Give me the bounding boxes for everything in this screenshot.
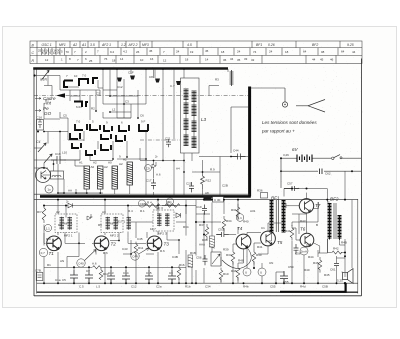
svg-text:C3: C3 (169, 271, 173, 275)
capacitor C21 (166, 139, 171, 147)
svg-text:36: 36 (223, 58, 227, 62)
capacitor C16 plates (38, 119, 42, 128)
svg-text:A3: A3 (102, 210, 106, 214)
transistor T6 symbol (305, 235, 311, 246)
shield thick bottom line (40, 195, 251, 198)
svg-text:C1F: C1F (128, 71, 134, 75)
svg-text:R46: R46 (231, 269, 237, 273)
svg-text:L3: L3 (201, 117, 207, 122)
svg-text:OSC 1: OSC 1 (42, 43, 52, 47)
circled tag mixer (145, 165, 152, 172)
svg-text:MF2 2: MF2 2 (110, 222, 119, 226)
scattered AF labels (223, 209, 347, 277)
svg-text:AN: AN (60, 259, 64, 263)
svg-text:R40: R40 (304, 268, 310, 272)
gang drive arrowhead (56, 93, 65, 97)
capacitor C14 electrolytic (122, 270, 130, 283)
resistor R13 vertical (99, 268, 103, 280)
svg-text:R1: R1 (45, 99, 49, 103)
junction dots bottom (73, 266, 173, 284)
circled tag near T3 with arrow (131, 252, 139, 260)
wire: misc bottom verticals (74, 222, 221, 283)
IF coil L3 box (181, 78, 200, 153)
labels MF2 2 (102, 210, 119, 237)
svg-text:6.0n: 6.0n (76, 105, 82, 109)
svg-text:MF2 3: MF2 3 (158, 232, 167, 236)
svg-text:par rapport au +: par rapport au + (261, 129, 295, 134)
wire: switch to frame (342, 157, 361, 159)
svg-text:R1: R1 (47, 263, 51, 267)
svg-text:L.5: L.5 (96, 285, 101, 289)
mixer coil hatched box B (98, 166, 104, 189)
svg-text:C62: C62 (325, 172, 331, 176)
svg-text:46: 46 (330, 58, 334, 62)
volume potentiometer box (211, 252, 221, 266)
arrow to Pe GO (35, 110, 41, 112)
arrow to Cadre (35, 97, 41, 99)
resistor R12 zigzag (201, 172, 205, 188)
transistor T2 symbol (95, 238, 107, 250)
svg-text:R.1: R.1 (140, 209, 145, 213)
svg-text:R9: R9 (98, 223, 102, 227)
capacitor C7B box bottom-left (36, 273, 43, 281)
IF transformer MF3 dashed box (153, 210, 174, 231)
circled tag under T6 (300, 247, 308, 255)
svg-text:BF2: BF2 (330, 196, 339, 201)
oscillator transistor symbol (41, 171, 46, 180)
svg-text:R41: R41 (257, 245, 263, 249)
svg-text:C12: C12 (131, 285, 137, 289)
svg-text:1.2: 1.2 (121, 43, 126, 47)
wire: tuner left mesh extras (34, 118, 140, 193)
circled tag near T2 with AGC arrow (77, 259, 85, 267)
svg-text:10: 10 (140, 58, 144, 62)
svg-text:MF2 1: MF2 1 (64, 233, 73, 237)
svg-text:R4B: R4B (341, 241, 347, 245)
voltage table header texts row B (42, 43, 354, 47)
svg-text:45: 45 (320, 58, 324, 62)
resistor R45 vertical (318, 257, 322, 273)
labels MF3 (156, 206, 167, 236)
svg-text:9 F: 9 F (141, 120, 146, 124)
extra junction dots tuner (59, 95, 147, 160)
svg-text:C4B: C4B (172, 255, 178, 259)
svg-text:C40: C40 (78, 262, 84, 266)
svg-text:A1: A1 (79, 161, 83, 165)
coil L1 thick marks (64, 81, 73, 88)
svg-text:R4b: R4b (243, 285, 249, 289)
svg-text:C7: C7 (86, 269, 90, 273)
mixer coil hatched box C (112, 166, 118, 189)
svg-text:R2: R2 (91, 107, 95, 111)
circled tag U2 (243, 268, 251, 276)
scattered IF labels (46, 209, 205, 267)
svg-text:A4: A4 (176, 167, 180, 171)
svg-text:R31: R31 (231, 208, 237, 212)
svg-text:T2: T2 (111, 242, 117, 247)
wire: L3 to shield bar (184, 153, 248, 196)
svg-text:0.26: 0.26 (268, 43, 275, 47)
capacitor C8 feedthrough (155, 79, 160, 83)
svg-text:C19: C19 (55, 152, 61, 156)
svg-text:MF2 2: MF2 2 (110, 233, 119, 237)
junction dots IF (43, 199, 197, 285)
svg-text:64: 64 (303, 49, 307, 53)
oscillator coil box (51, 171, 64, 179)
circled tag near T1 (39, 248, 47, 256)
resistor R31 vertical (236, 204, 240, 220)
svg-text:25: 25 (89, 59, 93, 63)
trimmer capacitor C1 arrow (42, 70, 50, 80)
svg-text:A2: A2 (123, 158, 127, 162)
scattered tuner labels (45, 92, 228, 195)
svg-text:R10: R10 (223, 272, 229, 276)
svg-text:C17: C17 (146, 179, 152, 183)
svg-text:UN: UN (269, 261, 273, 265)
svg-text:C44: C44 (233, 149, 239, 153)
transistor T4 symbol (242, 236, 248, 248)
svg-text:34: 34 (230, 57, 234, 61)
svg-text:R1b: R1b (185, 285, 191, 289)
wire: IF stage verticals (44, 200, 196, 284)
switch S1 (332, 157, 334, 159)
diode D3 (87, 214, 91, 220)
schematic frame bottom double line (34, 295, 361, 297)
svg-text:26: 26 (136, 50, 140, 54)
extra winding box right of MF2-2 (127, 217, 132, 230)
resistor R6 zigzag on emitter row (93, 266, 102, 269)
loudspeaker (343, 269, 353, 284)
BF1 right winding (282, 200, 286, 233)
svg-text:R.4: R.4 (128, 209, 133, 213)
IF transformer MF2-1 dashed box (55, 214, 77, 233)
wire: coil interconnects (68, 80, 103, 88)
wire: T6 T7 local mesh (292, 202, 320, 253)
junction dot C16 (37, 131, 39, 133)
svg-text:10: 10 (74, 74, 78, 78)
labels A0 A2 (91, 162, 124, 169)
svg-text:AF2 2: AF2 2 (128, 43, 138, 47)
voltage table label column divider (36, 41, 38, 64)
junction dots IF extra (78, 205, 193, 285)
BF2 core lines (334, 203, 336, 239)
svg-text:08: 08 (321, 50, 325, 54)
capacitor C58 (294, 244, 299, 254)
svg-text:GO: GO (44, 111, 52, 116)
capacitor C19b (202, 205, 207, 215)
svg-text:C57: C57 (287, 181, 293, 185)
earphone jack circle (282, 102, 287, 107)
resistor R4 zigzag (145, 204, 160, 208)
scan grain texture (30, 40, 363, 297)
svg-text:1o: 1o (47, 188, 51, 192)
resistor R16 vertical (177, 266, 181, 280)
svg-text:C59: C59 (288, 265, 294, 269)
svg-text:19: 19 (190, 50, 194, 54)
transistor T7 symbol (305, 200, 311, 212)
svg-text:44: 44 (312, 58, 316, 62)
svg-text:C6: C6 (140, 114, 144, 118)
scattered bottom labels (47, 223, 328, 289)
wire: extra tuner horizontals (60, 96, 113, 161)
transistor T1 circle (47, 236, 62, 251)
svg-text:C61: C61 (330, 267, 336, 271)
wire: T7 collector loop (284, 189, 327, 209)
capacitor C3 electrolytic (168, 270, 176, 283)
svg-text:R12: R12 (206, 179, 212, 183)
svg-text:35: 35 (237, 58, 241, 62)
capacitor C17 (151, 179, 156, 189)
resistor R33 vertical (231, 249, 235, 265)
svg-text:C5: C5 (63, 114, 67, 118)
svg-text:C21: C21 (165, 137, 171, 141)
IF coil L3 right winding (192, 91, 197, 148)
shield thick vertical bar (248, 87, 251, 197)
wire: lower tuner mesh (117, 79, 220, 197)
driver transformer BF1 (270, 200, 286, 233)
svg-text:32: 32 (251, 58, 255, 62)
IF coil L3 left winding (184, 89, 189, 146)
svg-text:18: 18 (285, 50, 289, 54)
BF2 right winding (338, 215, 342, 240)
resistor R36 white box at shield corner (261, 193, 268, 199)
svg-text:R41: R41 (285, 229, 291, 233)
transistor T2 circle (94, 236, 109, 251)
capacitor C13 electrolytic (107, 270, 115, 283)
coil R3 on top rail (230, 70, 234, 86)
svg-text:R.9: R.9 (210, 168, 215, 172)
svg-text:7.0: 7.0 (76, 120, 81, 124)
svg-text:A31: A31 (250, 209, 256, 213)
ground bus line (37, 282, 358, 284)
svg-text:A0: A0 (108, 161, 112, 165)
svg-text:1,1: 1,1 (238, 216, 243, 220)
svg-text:A8: A8 (205, 191, 209, 195)
svg-text:C1a: C1a (55, 278, 61, 282)
svg-text:64: 64 (341, 49, 345, 53)
capacitor C1F feedthrough (130, 76, 135, 80)
wire: top-left antenna input (34, 75, 60, 77)
junction dots on top rail (102, 68, 185, 70)
svg-text:C8: C8 (149, 75, 153, 79)
MF3 windings (157, 213, 170, 226)
svg-text:C56: C56 (196, 255, 202, 259)
voltage table row labels (32, 43, 35, 63)
svg-text:C1: C1 (261, 226, 265, 230)
svg-text:3.5: 3.5 (90, 43, 95, 47)
svg-text:R 4: R 4 (147, 200, 152, 204)
capacitor C12 feedthrough (117, 78, 122, 82)
resistor R38 hatched box (210, 236, 215, 248)
MF2-2 windings (106, 217, 119, 230)
svg-text:C4: C4 (36, 140, 40, 144)
resistor R10 vertical (219, 268, 223, 282)
capacitor C53 (217, 232, 229, 237)
resistor R40 vertical (252, 249, 256, 265)
circled tag W (45, 185, 53, 193)
svg-text:12: 12 (45, 58, 49, 62)
MF2-1 windings (60, 217, 73, 230)
dash-dot link to L3 (140, 139, 180, 141)
svg-text:R44: R44 (308, 255, 314, 259)
svg-text:76: 76 (104, 57, 108, 61)
jack plug chevron (296, 100, 325, 113)
wire: supply taps from top rail (103, 69, 228, 104)
wire: mesh of tuner couplings (60, 76, 146, 121)
svg-text:L2: L2 (112, 108, 116, 112)
wire: battery left (281, 157, 297, 159)
svg-text:C2: C2 (96, 92, 100, 96)
svg-text:C.5: C.5 (79, 285, 84, 289)
svg-text:MF 3: MF 3 (156, 206, 163, 210)
schematic frame left double line (33, 68, 35, 297)
svg-text:C9: C9 (146, 166, 150, 170)
diode D2 (176, 213, 181, 218)
mixer coil hatched box D (127, 162, 133, 185)
battery B1 (297, 155, 312, 163)
svg-text:BF1: BF1 (256, 43, 262, 47)
svg-text:BF2: BF2 (312, 43, 318, 47)
coil L2 thick marks (79, 78, 98, 86)
transistor T3 symbol (148, 238, 160, 250)
svg-text:24: 24 (176, 49, 180, 53)
svg-text:MF2 1: MF2 1 (64, 222, 73, 226)
svg-text:2mA: 2mA (301, 249, 307, 253)
svg-text:R40: R40 (243, 220, 249, 224)
svg-text:R33: R33 (226, 253, 232, 257)
circled tag top mid 2 (166, 198, 173, 205)
svg-text:C43: C43 (122, 247, 128, 251)
svg-text:44: 44 (352, 50, 356, 54)
wire: AF mesh (196, 158, 352, 284)
svg-text:2r: 2r (66, 200, 69, 204)
label Pe GO (43, 106, 52, 116)
svg-text:C5B: C5B (322, 285, 328, 289)
oscillator coil bumps (52, 176, 61, 178)
svg-text:S: S (168, 200, 170, 204)
schematic frame right double line (360, 59, 362, 297)
capacitor C7 electrolytic (85, 270, 93, 283)
capacitor C20 (189, 182, 194, 192)
svg-text:24: 24 (269, 49, 273, 53)
diode D0 (152, 162, 156, 168)
BF1 core lines (276, 200, 278, 232)
wire: extra IF mesh (44, 206, 210, 284)
svg-text:C45: C45 (137, 237, 143, 241)
capacitor C19 (51, 156, 66, 164)
svg-text:R18: R18 (190, 251, 196, 255)
svg-text:45: 45 (205, 49, 209, 53)
svg-text:A2: A2 (119, 162, 123, 166)
trimmer capacitor C4 arrows (38, 143, 46, 152)
svg-text:R34: R34 (226, 219, 232, 223)
svg-text:C16: C16 (37, 116, 43, 120)
schematic frame / shield top thick line (33, 67, 228, 69)
svg-text:C2B: C2B (222, 184, 228, 188)
wire: detector line (44, 205, 190, 207)
svg-text:C18: C18 (140, 202, 146, 206)
circled tag top mid (138, 200, 145, 207)
svg-text:R39: R39 (223, 248, 229, 252)
transistor T3 circle (147, 236, 162, 251)
capacitor C57 on top wire (284, 186, 299, 191)
svg-text:A1: A1 (81, 43, 86, 47)
voltage table column dividers row B (56, 41, 340, 48)
voltage table row line 2 (30, 54, 362, 56)
svg-text:R42: R42 (333, 247, 339, 251)
svg-text:AA: AA (68, 189, 72, 193)
svg-text:2r: 2r (155, 155, 158, 159)
circled tag U1 (258, 268, 266, 276)
AF section top bus line (34, 199, 358, 201)
svg-text:33: 33 (244, 57, 248, 61)
capacitor C7 feedthrough (176, 81, 181, 85)
svg-text:A2: A2 (104, 165, 108, 169)
svg-text:C14: C14 (123, 271, 129, 275)
transistor T6 circle (300, 233, 314, 247)
svg-text:MF3: MF3 (142, 43, 149, 47)
capacitor C2a electrolytic (145, 270, 153, 283)
IF transformer MF2-2 dashed box (101, 214, 123, 233)
svg-text:A.6: A.6 (92, 262, 97, 266)
svg-text:R38: R38 (202, 238, 208, 242)
voltage table row line 1 (30, 47, 362, 49)
transistor T7 circle (299, 199, 313, 213)
svg-text:A0: A0 (91, 165, 95, 169)
speaker return thick corner (280, 283, 346, 292)
svg-text:R45: R45 (324, 273, 330, 277)
svg-text:45: 45 (149, 49, 153, 53)
svg-text:R48: R48 (238, 259, 244, 263)
svg-text:BF1: BF1 (271, 195, 280, 200)
svg-text:AF2 1: AF2 1 (101, 43, 111, 47)
svg-text:R.6: R.6 (103, 251, 108, 255)
svg-text:R11: R11 (138, 246, 144, 250)
svg-text:14: 14 (120, 57, 124, 61)
output transformer BF2 (328, 203, 342, 240)
svg-text:C58: C58 (295, 252, 301, 256)
svg-text:0,7: 0,7 (41, 251, 46, 255)
svg-text:C2a: C2a (156, 285, 162, 289)
resistor R42 horizontal zigzag (332, 251, 342, 254)
transistor T1 symbol (47, 238, 59, 250)
mixer coil hatched box A (84, 166, 90, 189)
svg-text:R4d: R4d (300, 285, 306, 289)
junction dots lower tuner (153, 160, 204, 173)
svg-text:10,7: 10,7 (150, 227, 156, 231)
svg-text:C1N: C1N (40, 77, 47, 81)
svg-text:C3: C3 (125, 100, 129, 104)
svg-text:T3: T3 (164, 242, 170, 247)
svg-text:18: 18 (112, 58, 116, 62)
svg-text:U: U (260, 271, 262, 275)
svg-text:6V: 6V (292, 147, 299, 152)
resistor R18 hatched box (188, 255, 193, 268)
svg-text:R34: R34 (183, 225, 189, 229)
wire: mixer bottom connections (58, 164, 130, 194)
BF2 left winding (328, 203, 332, 240)
svg-text:A.6: A.6 (156, 173, 161, 177)
svg-text:C13: C13 (108, 271, 114, 275)
svg-text:12: 12 (163, 58, 167, 62)
wire: bar top to jack (251, 88, 285, 102)
voltage table column dividers row C (42, 48, 339, 56)
coil row y135 thick marks (70, 133, 80, 139)
capacitor C55 electrolytic (280, 271, 288, 283)
capacitor C61 (334, 263, 339, 265)
voltage table value texts row R (45, 57, 334, 63)
svg-text:C5: C5 (62, 278, 66, 282)
